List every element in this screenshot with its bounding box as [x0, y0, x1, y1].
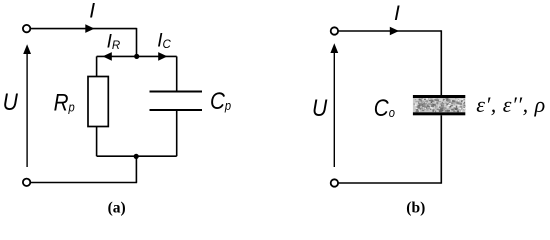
wire right upper (b) [440, 30, 442, 95]
current arrow I (a) [85, 24, 94, 33]
wire inner bottom (a) [97, 155, 177, 157]
wire vertical drop to junction node (a) [136, 28, 138, 57]
wire left branch upper (a) [96, 56, 98, 77]
wire bottom (b) [338, 182, 441, 184]
svg-text:U: U [3, 89, 19, 116]
svg-text:ε′, ε′′, ρ: ε′, ε′′, ρ [476, 92, 545, 117]
node junction top (a) [134, 54, 139, 59]
terminal top-left (a) [23, 25, 30, 32]
voltage arrow U (a) [26, 52, 28, 167]
current arrow I_C [158, 52, 167, 61]
wire right branch upper (a) [176, 56, 178, 91]
capacitor C_p top plate [150, 91, 203, 93]
wire right branch lower (a) [176, 110, 178, 156]
capacitor C_o dielectric (lossy, speckled) [413, 98, 466, 113]
wire right lower (b) [440, 115, 442, 183]
capacitor C_p bottom plate [150, 109, 203, 111]
capacitor C_o bottom plate [413, 112, 465, 115]
wire left branch lower (a) [96, 127, 98, 157]
wire top (a) [31, 28, 137, 30]
capacitor C_o top plate [413, 95, 465, 98]
current arrow I_R [103, 52, 112, 61]
terminal bottom-left (b) [331, 179, 338, 186]
svg-text:I: I [394, 2, 400, 25]
svg-text:(a): (a) [108, 199, 126, 216]
svg-text:(b): (b) [406, 199, 425, 216]
wire outer bottom (a) [31, 182, 138, 184]
wire junction down (a) [135, 156, 137, 182]
svg-text:I: I [89, 0, 95, 23]
current arrow I (b) [390, 27, 399, 36]
resistor R_p [88, 77, 108, 127]
svg-text:U: U [312, 95, 328, 122]
wire mid right (a) [137, 55, 177, 57]
wire mid left (a) [97, 55, 137, 57]
terminal top-left (b) [331, 27, 338, 34]
node junction bottom (a) [134, 154, 139, 159]
wire top (b) [338, 30, 441, 32]
voltage arrow U (b) [333, 52, 335, 168]
terminal bottom-left (a) [23, 179, 30, 186]
